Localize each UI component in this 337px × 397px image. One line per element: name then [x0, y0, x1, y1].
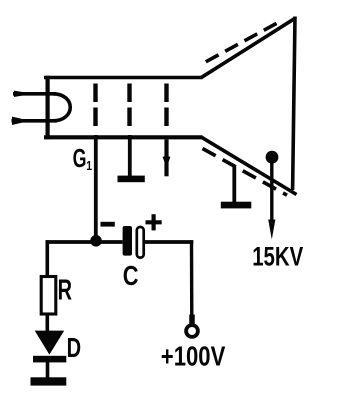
CRT funnel top diagonal	[201, 18, 295, 78]
label G1	[73, 144, 93, 174]
wire: gun enclosure top line / neck top	[44, 76, 203, 80]
heater lead bottom (with arrow)	[12, 117, 58, 125]
wire: G3 lead with down arrow	[163, 140, 171, 177]
svg-text:1: 1	[86, 159, 92, 173]
wire: junction to capacitor	[96, 240, 123, 244]
capacitor C positive plate (hollow)	[137, 227, 144, 258]
grid G2 dashed electrode	[127, 84, 131, 127]
ground (diode)	[31, 377, 67, 385]
wire: capacitor to right corner	[144, 240, 194, 244]
wire: anode HV lead with down arrow	[268, 162, 275, 240]
junction node (G1 / R / C)	[90, 235, 102, 247]
svg-text:G: G	[73, 144, 87, 173]
aquadag coating dashed line (top)	[206, 22, 279, 62]
ground (coating) lead	[232, 167, 236, 203]
grid G1 dashed electrode	[93, 84, 97, 127]
CRT funnel bottom diagonal	[201, 137, 297, 195]
CRT faceplate (right vertical)	[293, 17, 295, 191]
wire: G2 lead down to ground	[128, 135, 132, 177]
svg-text:C: C	[123, 261, 139, 292]
terminal (open circle, +100V)	[186, 315, 198, 337]
wire: junction to left corner	[46, 240, 97, 244]
wire: diode to ground	[46, 362, 50, 378]
cathode K (D-shaped electrode)	[53, 94, 70, 121]
svg-text:+100V: +100V	[161, 341, 226, 372]
heater lead top (with arrow)	[13, 91, 56, 97]
plus sign (capacitor positive)	[146, 214, 162, 230]
svg-text:15KV: 15KV	[252, 243, 303, 272]
wire: left corner down to resistor	[45, 240, 49, 276]
wire: resistor to diode	[45, 314, 49, 332]
grid G3 dashed electrode	[164, 84, 168, 127]
aquadag coating dashed line (bottom)	[203, 149, 288, 196]
minus sign (capacitor negative)	[101, 222, 115, 227]
wire: right corner down to terminal	[190, 240, 194, 324]
wire: G1 lead down to junction	[94, 135, 98, 240]
capacitor C negative plate (solid)	[123, 226, 132, 256]
anode button (dot on funnel)	[266, 151, 279, 164]
ground (coating) bar	[221, 202, 252, 209]
ground (G2)	[118, 176, 145, 183]
svg-text:R: R	[58, 275, 73, 306]
wire: gun enclosure bottom line / neck bottom	[44, 135, 203, 139]
diode D (triangle + bar)	[33, 331, 66, 363]
svg-text:D: D	[67, 333, 82, 364]
resistor R (box)	[41, 277, 56, 315]
wire: gun enclosure left edge	[45, 76, 49, 139]
